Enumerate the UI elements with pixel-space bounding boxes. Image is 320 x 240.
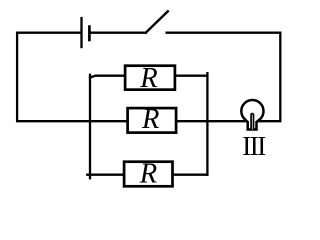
wire: top-left horizontal + left vertical + bottom main row to R2 — [17, 33, 128, 122]
svg-text:R: R — [141, 104, 159, 135]
resistor R1 box — [125, 66, 175, 90]
wire: battery to switch — [90, 32, 146, 34]
node: right bus — [206, 73, 208, 175]
lamp bulb outline — [241, 100, 263, 129]
lamp inner stem — [251, 114, 253, 130]
wire: switch contact + top-right corner + right vertical + lamp row — [167, 33, 281, 122]
wire: R3 right stub — [171, 174, 207, 176]
battery short plate — [88, 25, 91, 41]
node: left bus — [89, 75, 91, 178]
resistor R2 box — [128, 108, 177, 133]
battery long plate — [80, 17, 82, 48]
switch blade — [146, 11, 168, 32]
wire: R3 left stub — [87, 174, 125, 176]
wire: R1 right stub — [174, 75, 208, 77]
svg-text:R: R — [139, 63, 157, 94]
resistor R3 box — [124, 162, 172, 187]
svg-text:R: R — [139, 158, 157, 189]
svg-text:III: III — [242, 131, 266, 161]
wire: R1 left stub — [90, 76, 127, 78]
wire: R2 right stub to right bus — [175, 120, 207, 122]
